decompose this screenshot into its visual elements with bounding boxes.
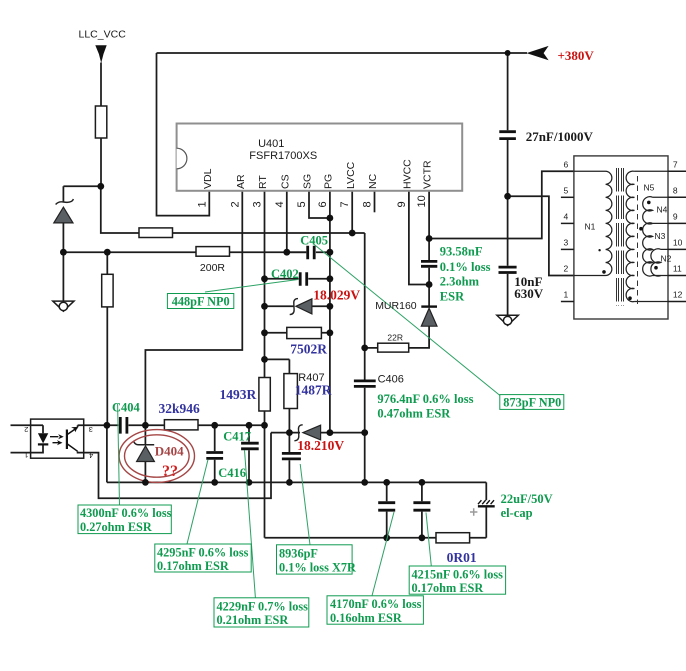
node zener top rail (60, 249, 67, 256)
wire 27nF branch from top rail (507, 53, 509, 196)
svg-text:??: ?? (162, 463, 178, 480)
node HVCC MUR160 junction (426, 281, 433, 288)
resistor R 7502R (287, 327, 322, 338)
winding N2 (651, 249, 668, 276)
diode MUR160 (421, 307, 437, 327)
svg-text:0.21ohm ESR: 0.21ohm ESR (217, 613, 289, 627)
svg-text:6: 6 (317, 201, 329, 207)
svg-text:C417: C417 (223, 430, 251, 444)
capacitor C417 plates (241, 443, 259, 449)
node C402 right PG (327, 275, 334, 282)
wire 4215nF cap column (421, 482, 423, 537)
node LVCC wire (349, 230, 356, 237)
annotation box 4300nF (78, 505, 171, 534)
node 7502R left RT (261, 329, 268, 336)
op-amp U401 FSFR1700XS IC body (177, 124, 463, 191)
svg-text:3: 3 (564, 238, 569, 248)
svg-text:HVCC: HVCC (402, 159, 414, 189)
svg-text:0.17ohm ESR: 0.17ohm ESR (412, 581, 484, 595)
node zener18.029 right PG (327, 303, 334, 310)
winding N5 (626, 171, 668, 302)
wire divider resistor branch (106, 252, 108, 425)
svg-text:0.1% loss: 0.1% loss (440, 260, 491, 274)
svg-text:18.210V: 18.210V (297, 438, 344, 453)
node VCTR junction (426, 235, 433, 242)
node 10nF top (504, 193, 511, 200)
svg-text:2: 2 (229, 201, 241, 207)
wire 7502R row (265, 332, 330, 334)
svg-text:D404: D404 (155, 444, 184, 459)
pin label AR pin 2 (229, 174, 247, 208)
node divider tap (104, 249, 111, 256)
svg-text:1: 1 (24, 451, 28, 460)
zener 18.210V (294, 425, 320, 441)
wire leader 448pF to C402 (205, 280, 298, 293)
node 8936 bottom (286, 479, 293, 486)
capacitor 8936pF plates (282, 453, 301, 459)
pin label PG pin 6 (317, 174, 335, 208)
svg-text:N1: N1 (585, 222, 596, 232)
pin label CS pin 4 (274, 174, 292, 207)
svg-text:7: 7 (339, 201, 351, 207)
svg-text:0.17ohm ESR: 0.17ohm ESR (157, 559, 229, 573)
capacitor 27nF/1000V plates (499, 132, 516, 139)
svg-text:N2: N2 (661, 254, 672, 264)
red ellipse inner around D404 (125, 435, 190, 477)
node C417 bottom (246, 479, 253, 486)
wire pin7 LVCC stub (351, 191, 353, 233)
node C402 left RT (261, 275, 268, 282)
wire pin2 AR down to C404 node (145, 191, 242, 425)
optocoupler light arrows (50, 437, 60, 443)
node C416 bottom (211, 479, 218, 486)
svg-text:9: 9 (673, 212, 678, 222)
resistor LVCC feed (139, 228, 173, 238)
annotation box 4229nF (214, 598, 309, 627)
node C405 right PG (327, 249, 334, 256)
resistor R 200R (196, 247, 230, 257)
svg-text:22uF/50V: 22uF/50V (501, 492, 553, 506)
svg-text:5: 5 (296, 201, 308, 207)
supply arrow LLC_VCC (95, 45, 106, 63)
capacitor 93.58nF plates (421, 261, 437, 266)
ground right (10nF) (497, 315, 518, 325)
svg-text:VDL: VDL (202, 168, 214, 189)
node zener rail right C406 (361, 429, 368, 436)
wire leader 8936pF cap to box (300, 464, 310, 545)
annotation box 448pF NP0 (167, 294, 233, 309)
wire leader C416 to 4295nF (187, 460, 208, 545)
svg-text:+380V: +380V (558, 48, 595, 63)
annotation box 4295nF (155, 544, 251, 572)
wire C417 column (248, 425, 250, 482)
svg-text:AR: AR (235, 174, 247, 189)
capacitor 4170nF plates (378, 503, 395, 511)
wire C402 row RT to PG (265, 278, 330, 280)
svg-text:12: 12 (673, 290, 683, 300)
pin label SG pin 5 (296, 174, 314, 208)
svg-text:7: 7 (673, 160, 678, 170)
node zener18.029 left RT (261, 303, 268, 310)
resistor R 32k946 (164, 420, 198, 430)
wire leader C417 to 4229nF (245, 450, 256, 598)
wire leader C404 to 4300nF (118, 404, 120, 505)
resistor divider lower (vertical) (102, 274, 113, 307)
pin label HVCC pin 9 (396, 159, 414, 208)
wire C416 column (214, 425, 216, 482)
svg-text:11: 11 (673, 264, 682, 274)
svg-text:2: 2 (564, 264, 569, 274)
wire optocoupler pin3 emitter out (78, 425, 107, 427)
wire transformer right stub pin 12 (668, 301, 686, 303)
supply arrow +380V (527, 46, 549, 60)
wire transformer left stub pin 1 (561, 301, 574, 303)
wire +380V top rail (157, 52, 528, 54)
svg-text:0.27ohm ESR: 0.27ohm ESR (80, 520, 152, 534)
capacitor C406 plates (354, 381, 376, 387)
svg-text:NC: NC (367, 173, 379, 189)
svg-text:4: 4 (89, 451, 93, 460)
resistor R 1493R (vertical) (259, 378, 270, 412)
annotation box 4170nF (327, 596, 423, 624)
svg-text:8: 8 (673, 186, 678, 196)
zener 18.029V (290, 299, 312, 315)
wire pin8 NC stub (374, 191, 376, 213)
node 22R tap (361, 345, 368, 352)
svg-text:4295nF 0.6% loss: 4295nF 0.6% loss (157, 545, 249, 559)
pin label RT pin 3 (252, 175, 270, 208)
svg-text:7502R: 7502R (290, 341, 327, 356)
wire zener 18.029V row (265, 305, 330, 307)
wire LLC_VCC supply to R divider (63, 63, 101, 202)
capacitor 10nF/630V plates (499, 267, 517, 272)
svg-text:C404: C404 (112, 401, 141, 415)
svg-text:3: 3 (252, 201, 264, 207)
resistor R 22R (378, 343, 409, 352)
svg-text:1493R: 1493R (220, 387, 257, 402)
node RT rail end (261, 422, 268, 429)
node D404 bottom (142, 479, 149, 486)
node 7502R right PG (327, 329, 334, 336)
svg-text:ESR: ESR (440, 289, 465, 303)
wire pin4 CS down (286, 191, 288, 252)
node C417 top (246, 422, 253, 429)
svg-text:MUR160: MUR160 (375, 300, 417, 312)
zener diode left of LLC_VCC (54, 199, 74, 223)
node 4215 bottom (419, 534, 426, 541)
svg-text:2.3ohm: 2.3ohm (440, 275, 480, 289)
wire optocoupler pin2 LED input (11, 425, 44, 433)
svg-text:N4: N4 (657, 205, 668, 215)
red ellipse outer around D404 (119, 430, 194, 483)
capacitor C405 plates (308, 246, 315, 259)
wire pin5 SG jog to PG (309, 191, 330, 218)
svg-text:0R01: 0R01 (447, 550, 477, 565)
svg-text:4: 4 (274, 201, 286, 207)
wire pin1 VDL to top rail (157, 53, 210, 216)
svg-text:10: 10 (673, 238, 683, 248)
resistor LLC_VCC series (vertical) (95, 106, 106, 138)
svg-text:0.16ohm ESR: 0.16ohm ESR (330, 611, 402, 625)
wire R407 branch from RT node (265, 359, 290, 432)
node R407 branch RT (261, 356, 268, 363)
svg-text:C406: C406 (378, 374, 404, 386)
svg-text:FSFR1700XS: FSFR1700XS (249, 150, 317, 162)
svg-text:SG: SG (302, 174, 314, 189)
transformer shield dashed line (637, 176, 639, 304)
wire zener cathode node to ground branch and 200R rail (63, 223, 306, 301)
svg-text:CS: CS (279, 174, 291, 189)
svg-text:630V: 630V (514, 286, 544, 301)
resistor R407 1487R (vertical) (284, 374, 298, 409)
wire transformer right stub pin 7 (668, 170, 686, 172)
wire 10nF to ground (507, 196, 509, 315)
svg-text:C405: C405 (300, 234, 328, 248)
svg-text:N5: N5 (644, 183, 655, 193)
wire transformer right stub pin 9 (668, 222, 686, 224)
svg-text:el-cap: el-cap (501, 506, 533, 520)
transformer core (617, 168, 624, 306)
svg-text:0.47ohm ESR: 0.47ohm ESR (377, 407, 451, 421)
svg-text:1: 1 (564, 290, 569, 300)
optocoupler U body (31, 419, 84, 458)
wire 8936pF cap column (288, 433, 290, 483)
wire leader 4170nF cap to box (372, 512, 394, 596)
wire transformer left stub pin 4 (561, 222, 574, 224)
svg-text:8: 8 (362, 201, 374, 207)
svg-text:RT: RT (257, 175, 269, 189)
pin label VCTR pin 10 (416, 160, 434, 208)
wire zener 18.210V rail (271, 432, 365, 434)
zener D404 (134, 442, 154, 462)
svg-text:4215nF 0.6% loss: 4215nF 0.6% loss (412, 567, 504, 581)
capacitor C404 plates (120, 417, 127, 434)
node opto pin3 rail (104, 422, 111, 429)
capacitor C402 plates (300, 272, 307, 285)
svg-text:9: 9 (396, 201, 408, 207)
wire transformer left stub pin 3 (561, 248, 574, 250)
svg-text:8936pF: 8936pF (279, 546, 318, 560)
wire optocoupler pin1 LED return (11, 445, 44, 453)
svg-text:93.58nF: 93.58nF (440, 245, 483, 259)
wire pin3 RT line down (264, 191, 266, 538)
wire LLC_VCC via resistor to LVCC pin7 node (101, 186, 365, 233)
wire pin6 PG line down (329, 191, 331, 433)
node C406 bottom rail (361, 479, 368, 486)
svg-text:5: 5 (564, 186, 569, 196)
wire el-cap branch (485, 482, 487, 537)
svg-text:PG: PG (323, 174, 335, 189)
svg-text:C416: C416 (218, 466, 246, 480)
transformer polarity dots (602, 270, 606, 274)
svg-text:C402: C402 (271, 267, 299, 281)
wire leader 4215nF cap to box (426, 513, 431, 567)
ground left (53, 301, 74, 311)
svg-text:10: 10 (416, 195, 428, 207)
resistor R 0R01 (436, 533, 470, 543)
pin label NC pin 8 (362, 173, 380, 207)
node zener rail PG bottom (327, 429, 334, 436)
pin label LVCC pin 7 (339, 161, 357, 207)
winding N3 (643, 223, 668, 276)
svg-text:976.4nF 0.6% loss: 976.4nF 0.6% loss (377, 392, 473, 406)
wire transformer right stub pin 8 (668, 196, 686, 198)
svg-text:1487R: 1487R (295, 383, 332, 398)
svg-text:LVCC: LVCC (345, 161, 357, 189)
node 4170 top (383, 479, 390, 486)
svg-text:6: 6 (564, 160, 569, 170)
wire optocoupler pin4 collector to lower rail (78, 433, 271, 499)
svg-text:32k946: 32k946 (159, 401, 201, 416)
capacitor C416 plates (206, 453, 223, 459)
svg-text:4300nF 0.6% loss: 4300nF 0.6% loss (80, 506, 172, 520)
winding N4 (643, 197, 668, 224)
wire LVCC branch down through C406 to bottom rail (364, 233, 366, 482)
svg-text:LLC_VCC: LLC_VCC (79, 29, 127, 41)
svg-text:4229nF 0.7% loss: 4229nF 0.7% loss (217, 599, 309, 613)
node LLC_VCC branch (97, 183, 104, 190)
wire leader C405 to 873pF (313, 244, 500, 396)
svg-text:873pF NP0: 873pF NP0 (503, 396, 561, 410)
wire pin9 HVCC to MUR160 node (409, 191, 429, 285)
wire 4170nF cap column (386, 482, 388, 537)
wire 10nF node to transformer pin 2 (508, 196, 574, 275)
wire pin10 VCTR down through 93.58nF and MUR160 (365, 191, 429, 348)
svg-text:U401: U401 (258, 138, 284, 150)
annotation box 8936pF (277, 545, 353, 574)
wire D404 branch (144, 425, 146, 482)
svg-text:0.1% loss X7R: 0.1% loss X7R (279, 560, 356, 574)
node 4170 bottom (383, 534, 390, 541)
svg-text:200R: 200R (200, 262, 226, 274)
svg-text:4170nF 0.6% loss: 4170nF 0.6% loss (330, 597, 422, 611)
wire bottom ground rail (107, 425, 486, 482)
wire transformer left stub pin 5 (561, 196, 574, 198)
capacitor 22uF/50V el-cap (470, 500, 495, 516)
svg-text:VCTR: VCTR (422, 160, 434, 189)
svg-text:2: 2 (24, 425, 28, 434)
node D404 top (142, 422, 149, 429)
node 4215 top (419, 479, 426, 486)
wire lower return rail with 0R01 (265, 537, 487, 539)
node SG-PG join (327, 215, 334, 222)
svg-text:N3: N3 (655, 231, 666, 241)
wire VCTR node to transformer pin 6 (429, 171, 574, 238)
node zener rail left (286, 429, 293, 436)
capacitor 4215nF plates (413, 503, 430, 511)
svg-text:1: 1 (196, 201, 208, 207)
svg-text:27nF/1000V: 27nF/1000V (526, 129, 594, 144)
wire transformer right stub pin 10 (668, 248, 686, 250)
wire transformer right stub pin 11 (668, 275, 686, 277)
svg-text:4: 4 (564, 212, 569, 222)
node CS C405 left (283, 249, 290, 256)
annotation box 873pF NP0 (500, 395, 564, 410)
optocoupler phototransistor (67, 427, 78, 451)
svg-text:3: 3 (89, 425, 93, 434)
transformer T1 body (574, 156, 668, 319)
pin label VDL pin 1 (196, 168, 214, 207)
svg-text:22R: 22R (387, 332, 403, 342)
svg-text:448pF NP0: 448pF NP0 (172, 295, 230, 309)
node +380V rail junction (505, 50, 511, 56)
wire C405 row CS to PG (287, 251, 330, 253)
node C416 top (211, 422, 218, 429)
annotation box 4215nF (409, 566, 505, 594)
svg-text:18.029V: 18.029V (313, 288, 360, 303)
winding N1 primary (574, 171, 612, 275)
optocoupler LED (38, 433, 48, 443)
wire C404 32k946 rail (107, 424, 265, 426)
